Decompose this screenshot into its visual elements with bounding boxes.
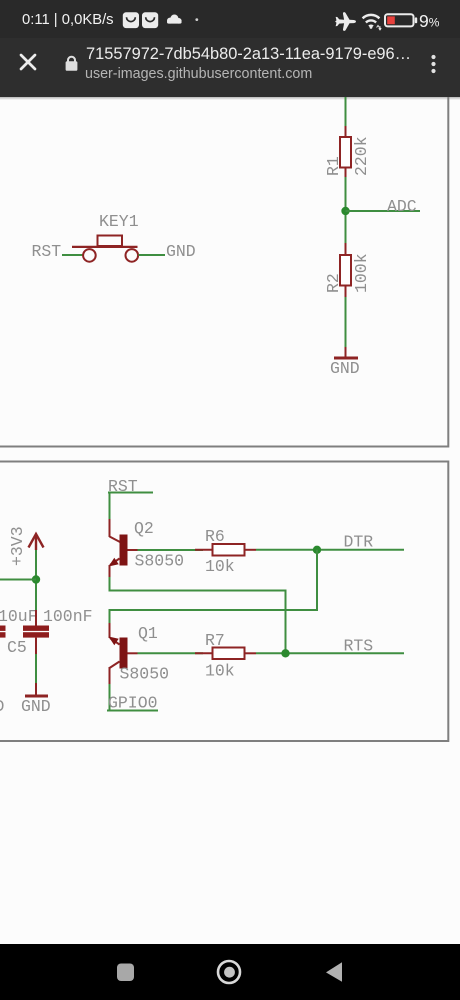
wire top feed into R1: [345, 97, 347, 126]
lock icon: [62, 53, 86, 77]
svg-text:10k: 10k: [205, 557, 235, 576]
svg-text:+3V3: +3V3: [8, 526, 27, 566]
wire R6 to DTR: [256, 549, 404, 551]
tiny dot icon: [195, 18, 198, 21]
svg-text:R6: R6: [205, 527, 225, 546]
cloud icon: [167, 15, 182, 24]
ground GND C5: [25, 683, 48, 696]
svg-text:Q1: Q1: [138, 624, 158, 643]
wire to 10uF branch: [0, 579, 36, 581]
battery icon 9%: [385, 14, 417, 26]
schematic frame box 2: [0, 462, 448, 742]
svg-text:R7: R7: [205, 631, 225, 650]
wire Q2 base to R6: [138, 549, 204, 551]
schematic frame box 1: [0, 97, 448, 447]
page subtitle domain: [85, 66, 312, 82]
svg-text:C5: C5: [7, 638, 27, 657]
pushbutton KEY1: [72, 236, 138, 262]
svg-text:ADC: ADC: [387, 197, 417, 216]
nav recent apps square: [117, 964, 134, 982]
node DTR junction: [313, 546, 321, 554]
wire Q1 collector to GPIO0: [109, 684, 111, 710]
resistor R1: [340, 126, 351, 177]
svg-text:10k: 10k: [205, 662, 235, 681]
resistor R7: [195, 648, 256, 660]
svg-text:R1: R1: [324, 156, 343, 176]
node RTS junction: [281, 649, 289, 657]
status bar icons: [0, 0, 460, 38]
notification icon 1: [123, 12, 139, 28]
airplane mode icon: [335, 12, 356, 31]
status bar: [0, 0, 460, 38]
svg-text:S8050: S8050: [135, 552, 185, 571]
svg-text:S8050: S8050: [120, 665, 170, 684]
wire Q1 base to R7: [138, 652, 204, 654]
svg-text:100k: 100k: [352, 253, 371, 293]
svg-text:GND: GND: [330, 359, 360, 378]
wire RST to Q2 collector: [109, 493, 111, 520]
svg-text:100nF: 100nF: [43, 607, 93, 626]
svg-text:RST: RST: [32, 242, 62, 261]
svg-text:GND: GND: [21, 697, 51, 716]
wire ADC: [346, 210, 421, 212]
navigation bar: [0, 944, 460, 1000]
svg-text:10uF: 10uF: [0, 607, 38, 626]
node ADC junction: [341, 207, 349, 215]
toolbar: [0, 38, 460, 97]
wire R7 to RTS: [256, 652, 404, 654]
svg-text:RTS: RTS: [344, 637, 374, 656]
transistor Q1: [109, 623, 138, 684]
overflow menu dots: [424, 44, 444, 84]
wire switch to GND: [139, 254, 166, 256]
page title URL: [86, 45, 420, 64]
wire Q2 emitter to RTS: [110, 577, 286, 653]
wire C5 to ground: [35, 654, 37, 683]
resistor R2: [340, 243, 351, 297]
transistor Q2: [109, 519, 138, 577]
nav home circle: [218, 961, 240, 983]
power +3V3: [29, 534, 44, 550]
capacitor 10uF partial: [0, 626, 6, 638]
nav back triangle: [326, 962, 342, 982]
ground GND divider: [334, 347, 358, 358]
svg-text:DTR: DTR: [344, 533, 374, 552]
resistor R6: [195, 544, 256, 556]
wire DTR down to Q1 emitter: [110, 550, 318, 623]
wire R1 to node: [345, 177, 347, 243]
notification icon 2: [142, 12, 158, 28]
capacitor C5 100nF: [23, 610, 49, 654]
wire RST to switch: [62, 254, 83, 256]
wire +3V3 to junction: [35, 550, 37, 610]
svg-text:GND: GND: [166, 242, 196, 261]
svg-text:D: D: [0, 697, 5, 716]
wifi icon: [363, 15, 382, 30]
close X icon: [14, 44, 54, 84]
svg-text:KEY1: KEY1: [99, 212, 139, 231]
svg-text:Q2: Q2: [134, 519, 154, 538]
svg-text:R2: R2: [324, 273, 343, 293]
net label RST box2: [108, 477, 153, 496]
status bar clock and net speed: [22, 12, 114, 28]
svg-text:220k: 220k: [352, 136, 371, 176]
net label GPIO0: [107, 694, 158, 713]
wire R2 to ground: [345, 297, 347, 347]
node 3V3 junction: [32, 575, 40, 583]
